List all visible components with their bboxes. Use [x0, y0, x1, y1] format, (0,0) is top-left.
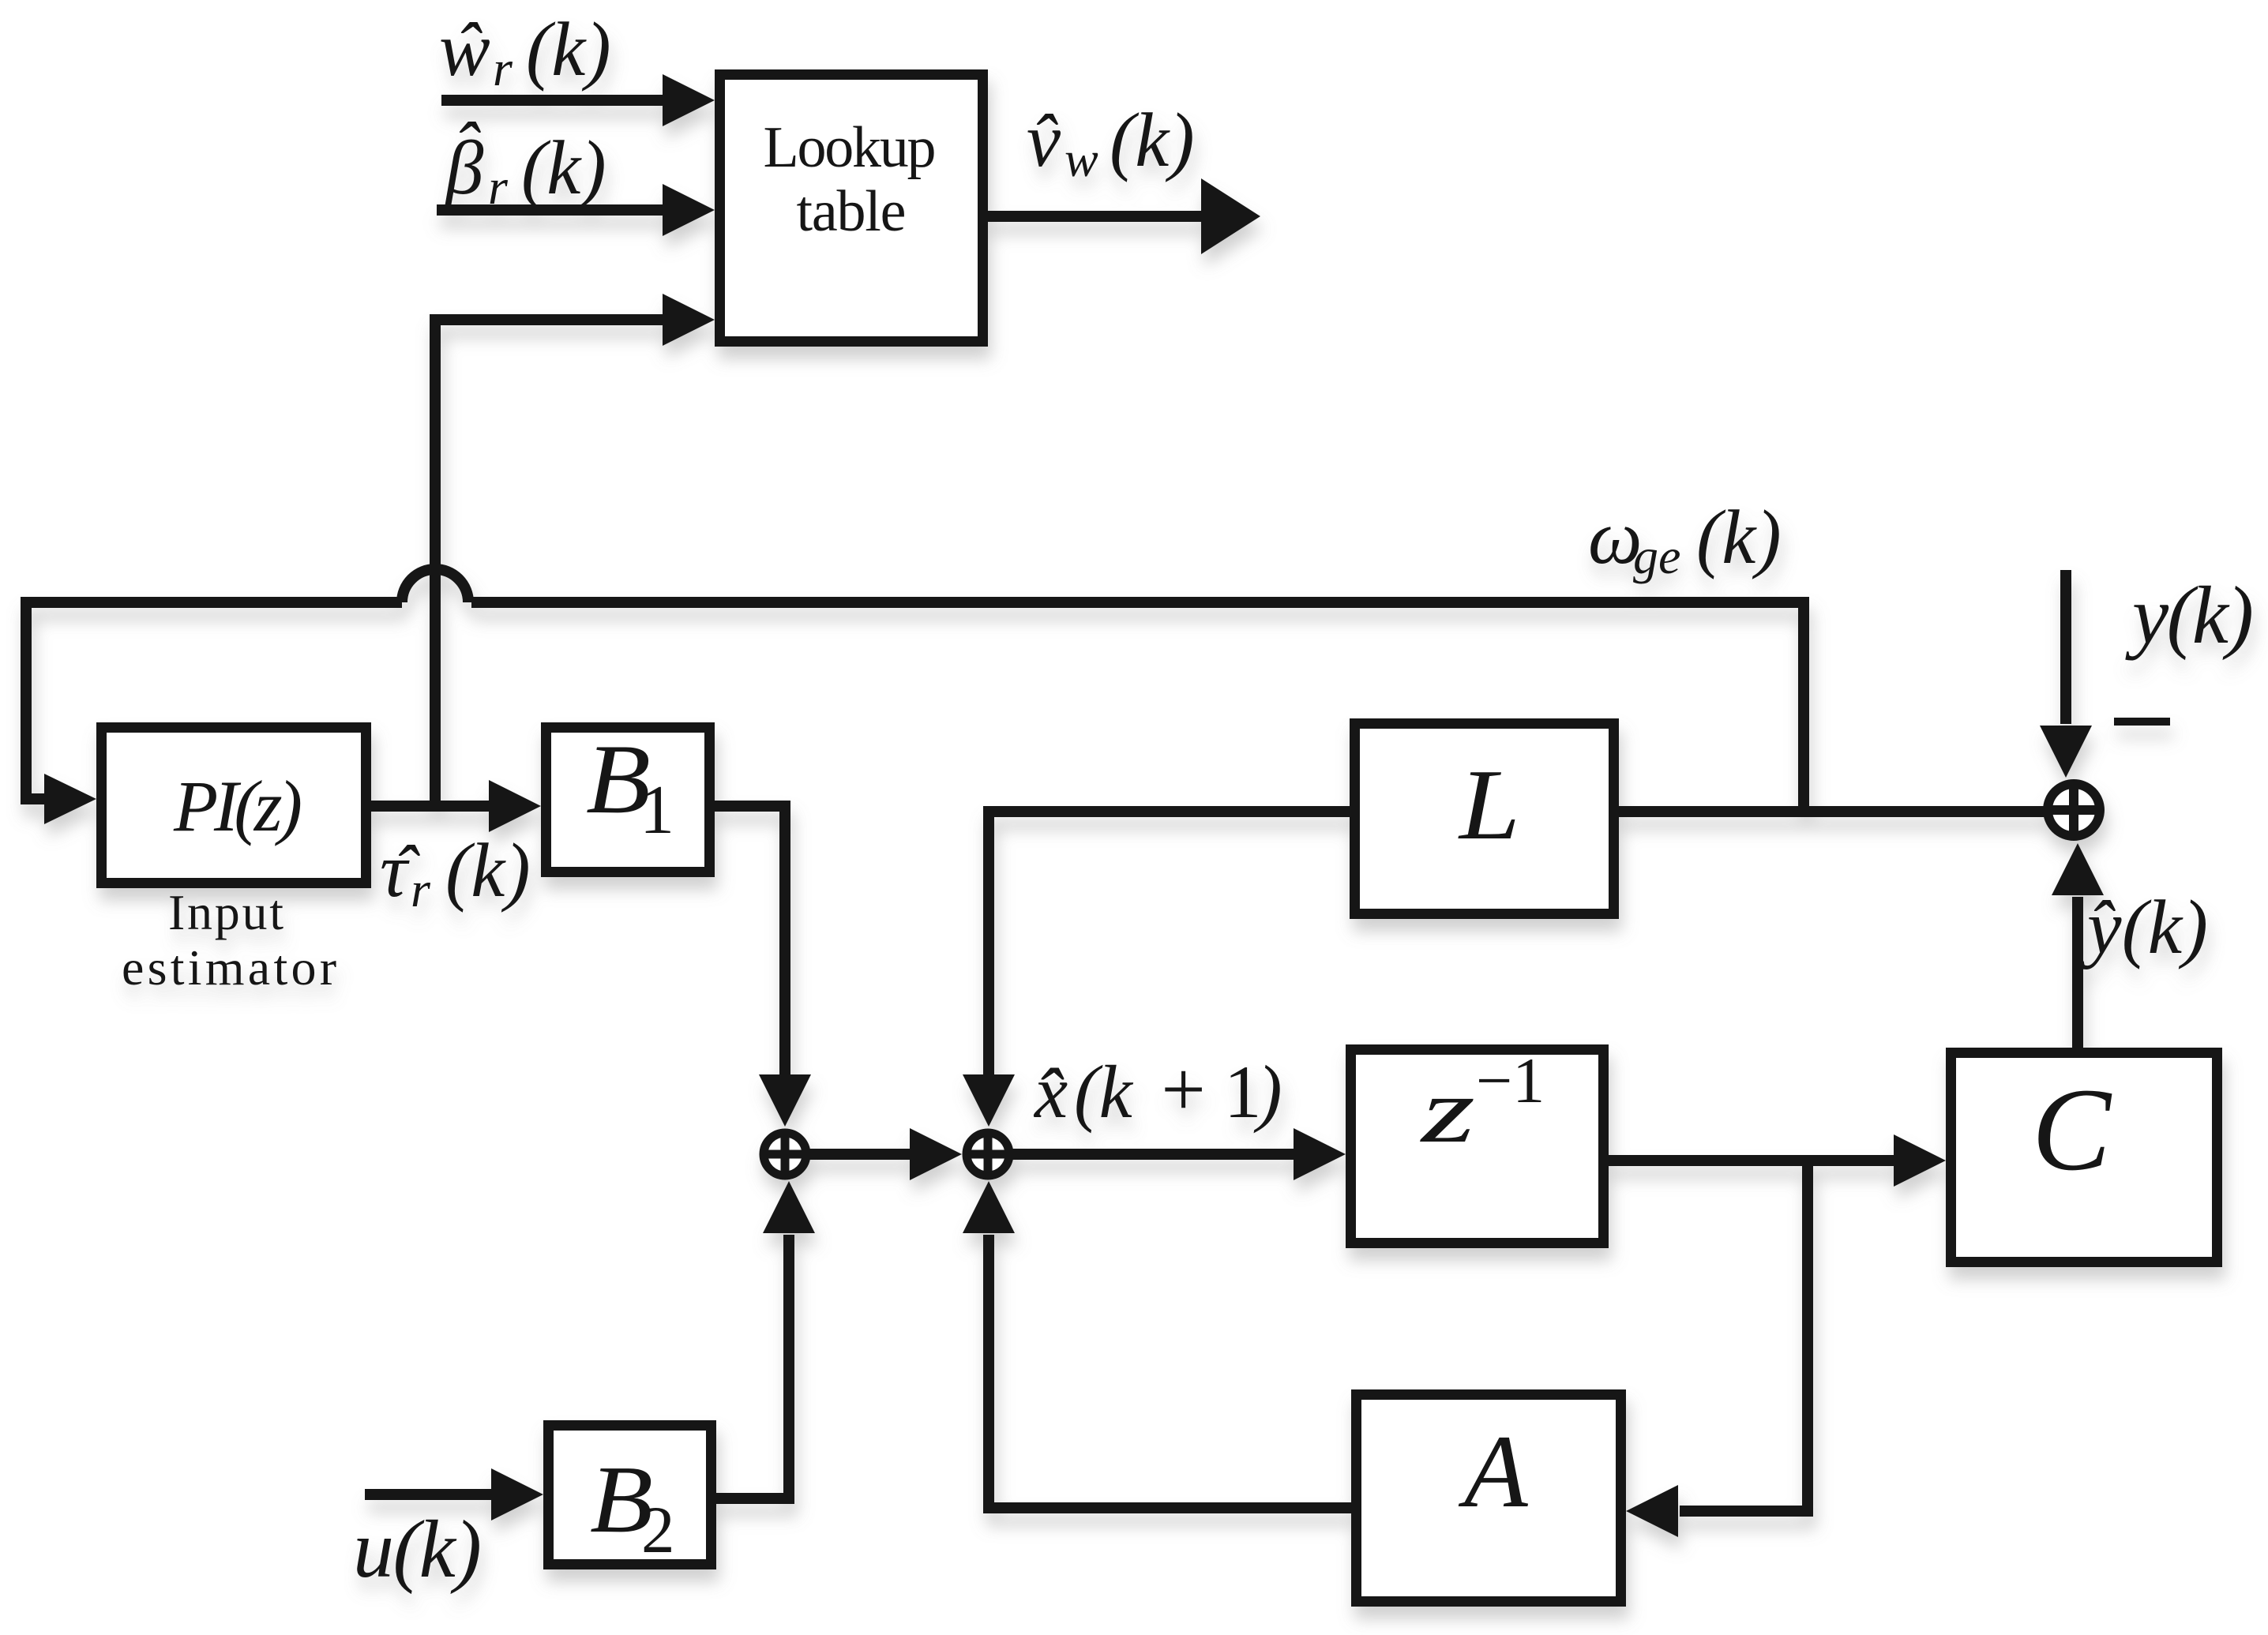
svg-text:1: 1 — [1224, 1050, 1262, 1134]
svg-text:C: C — [2032, 1064, 2112, 1195]
svg-text:A: A — [1458, 1413, 1529, 1529]
svg-text:(k): (k) — [445, 828, 531, 913]
svg-text:(k): (k) — [521, 126, 606, 210]
svg-text:u(k): u(k) — [353, 1504, 482, 1595]
svg-text:ˆ: ˆ — [1034, 1052, 1065, 1140]
svg-text:ˆ: ˆ — [392, 831, 420, 913]
svg-text:w: w — [1065, 131, 1098, 187]
svg-text:Lookup: Lookup — [764, 115, 937, 180]
svg-text:ˆ: ˆ — [453, 108, 481, 189]
svg-text:(k: (k — [1074, 1050, 1134, 1134]
svg-text:ge: ge — [1633, 528, 1680, 584]
svg-text:ˆ: ˆ — [455, 9, 483, 90]
svg-text:(k): (k) — [1110, 98, 1195, 182]
svg-text:−1: −1 — [1476, 1044, 1545, 1116]
svg-text:ˆ: ˆ — [2088, 887, 2116, 968]
svg-text:r: r — [493, 40, 513, 96]
svg-text:1: 1 — [640, 772, 674, 849]
svg-text:L: L — [1458, 748, 1520, 861]
svg-text:ˆ: ˆ — [1031, 100, 1058, 182]
svg-text:estimator: estimator — [122, 939, 336, 996]
svg-text:(k): (k) — [1696, 495, 1782, 579]
svg-text:2: 2 — [641, 1493, 675, 1567]
svg-text:table: table — [797, 179, 907, 244]
svg-text:+: + — [1156, 1045, 1209, 1133]
svg-text:PI(z): PI(z) — [173, 766, 302, 846]
svg-text:Input: Input — [168, 884, 283, 940]
svg-text:(k): (k) — [526, 7, 611, 92]
svg-text:): ) — [1253, 1050, 1282, 1134]
svg-text:r: r — [488, 159, 509, 215]
svg-text:y(k): y(k) — [2125, 570, 2254, 661]
svg-text:z: z — [1419, 1059, 1475, 1162]
